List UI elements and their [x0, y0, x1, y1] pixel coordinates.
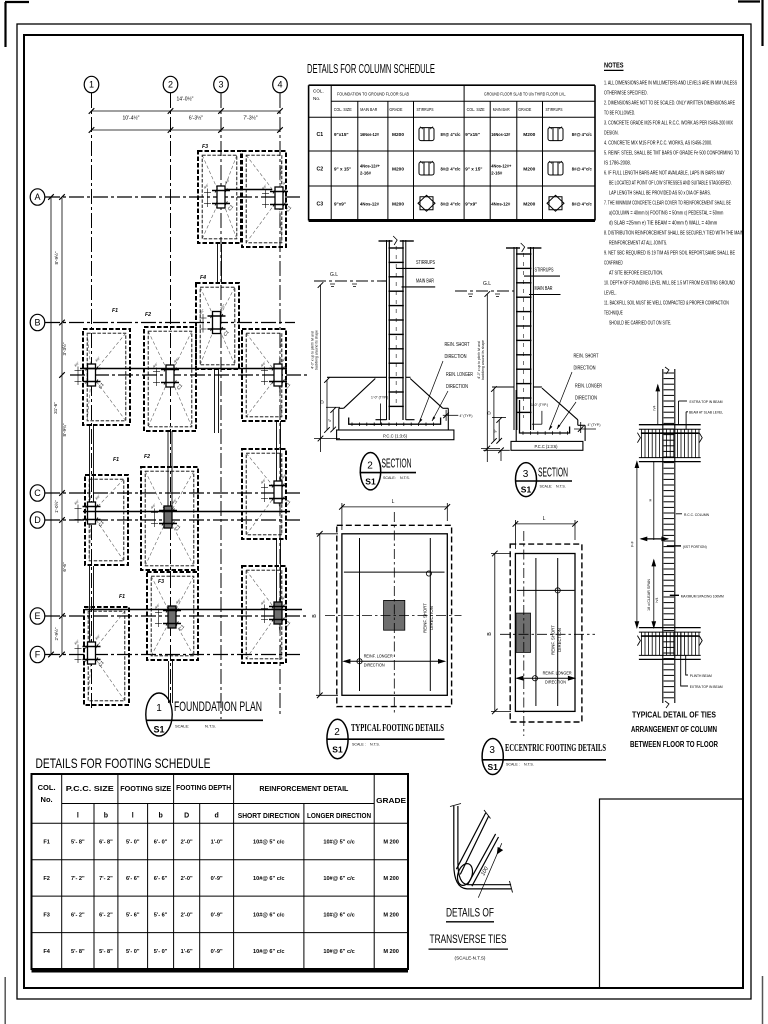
footing F4 at grid B/3	[196, 275, 239, 369]
typical footing reinf longer label	[364, 654, 393, 669]
svg-text:5'- 6": 5'- 6"	[126, 912, 140, 918]
svg-text:GRADE: GRADE	[376, 796, 406, 805]
svg-text:6. IF FULL LENGTH BARS ARE NOT: 6. IF FULL LENGTH BARS ARE NOT AVAILABLE…	[604, 171, 725, 177]
column schedule header text	[313, 89, 566, 113]
svg-text:3'-3½": 3'-3½"	[61, 342, 67, 355]
svg-text:d: d	[215, 813, 219, 820]
section 3 PCC base	[511, 441, 583, 450]
svg-text:8#@ 4"c/c: 8#@ 4"c/c	[572, 201, 592, 206]
svg-text:REIN. LONGER: REIN. LONGER	[575, 384, 602, 390]
svg-text:MAIN BAR: MAIN BAR	[493, 107, 510, 112]
svg-text:S1: S1	[332, 745, 343, 755]
section 2 column rebar bends	[376, 419, 415, 421]
svg-text:E: E	[34, 611, 40, 621]
svg-text:No.: No.	[313, 96, 320, 101]
svg-text:MAIN BAR: MAIN BAR	[360, 107, 377, 112]
section 2 tall left dimension	[314, 282, 340, 452]
svg-text:8'-9¾": 8'-9¾"	[62, 423, 67, 436]
svg-text:7'- 2": 7'- 2"	[71, 876, 85, 882]
svg-text:DIRECTION: DIRECTION	[364, 663, 385, 669]
ties label extra top in beam (upper)	[679, 399, 723, 425]
svg-text:F4: F4	[200, 275, 206, 281]
svg-text:h/4: h/4	[655, 598, 659, 603]
svg-text:DESIGN.: DESIGN.	[604, 131, 619, 137]
footing F2 at grid B/2	[144, 312, 196, 431]
svg-text:1'-0" (TYP.): 1'-0" (TYP.)	[531, 403, 549, 407]
section 3 rein longer direction label	[557, 384, 602, 430]
svg-text:SECTION: SECTION	[382, 457, 412, 471]
section 3 rein short direction label	[549, 354, 599, 431]
svg-text:3. CONCRETE GRADE M25 FOR ALL: 3. CONCRETE GRADE M25 FOR ALL R.C.C. WOR…	[604, 121, 733, 127]
svg-text:2'-0": 2'-0"	[181, 912, 193, 918]
svg-text:10. DEPTH OF FOUNDING LEVEL WI: 10. DEPTH OF FOUNDING LEVEL WILL BE 1.5 …	[604, 281, 735, 287]
section 2 stirrups label	[396, 260, 435, 268]
svg-text:b: b	[158, 813, 162, 820]
svg-text:ECCENTRIC FOOTING DETAILS: ECCENTRIC FOOTING DETAILS	[505, 743, 606, 754]
svg-text:M200: M200	[392, 201, 404, 207]
eccentric footing B dimension	[491, 551, 511, 715]
footing schedule data rows	[43, 840, 399, 955]
svg-text:1'-0" (TYP.): 1'-0" (TYP.)	[371, 396, 389, 400]
svg-text:5'- 8": 5'- 8"	[71, 949, 85, 955]
svg-text:0'-9": 0'-9"	[211, 912, 223, 918]
svg-text:S1: S1	[153, 725, 164, 735]
footing F3 at grid E/2	[147, 572, 198, 660]
typical footing plan outer dashed	[337, 525, 452, 706]
svg-text:TECHNIQUE: TECHNIQUE	[604, 311, 623, 317]
svg-text:P.C.C (1:3:6): P.C.C (1:3:6)	[383, 433, 407, 438]
section 3 pedestal width dim 1ft	[532, 411, 542, 424]
footing F3 at grid A/3	[198, 144, 241, 243]
foundation plan title bubble 1/S1	[146, 693, 263, 736]
svg-text:D: D	[184, 813, 189, 820]
svg-text:F1: F1	[113, 457, 119, 463]
eccentric footing centerlines	[500, 531, 595, 736]
typical footing column (grey)	[384, 600, 405, 630]
svg-text:4" (TYP.): 4" (TYP.)	[588, 423, 602, 427]
section 2 column with stirrups	[379, 236, 414, 420]
svg-text:N.T.S.: N.T.S.	[556, 485, 566, 489]
svg-text:DETAILS FOR COLUMN SCHEDULE: DETAILS FOR COLUMN SCHEDULE	[307, 61, 435, 76]
section 2 PCC base	[337, 430, 454, 440]
typical footing title bubble 2/S1	[327, 719, 445, 759]
notes text	[604, 81, 743, 327]
svg-text:TYPICAL FOOTING DETAILS: TYPICAL FOOTING DETAILS	[351, 723, 444, 734]
svg-text:M 200: M 200	[383, 876, 399, 882]
section 2 left dim D	[324, 377, 330, 433]
svg-text:STIRRUPS: STIRRUPS	[417, 107, 434, 112]
svg-text:F1: F1	[112, 308, 118, 314]
svg-text:2: 2	[168, 80, 173, 90]
svg-text:REINF. SHORT: REINF. SHORT	[551, 625, 556, 655]
svg-text:L: L	[543, 516, 546, 522]
section 3 right dim 4in TYP	[574, 422, 596, 433]
svg-text:b: b	[104, 813, 108, 820]
svg-text:N.T.S.: N.T.S.	[205, 724, 216, 729]
svg-text:1: 1	[89, 80, 94, 90]
footing schedule table	[32, 774, 409, 971]
svg-text:F2: F2	[144, 454, 150, 460]
footing at grid B/4	[242, 329, 292, 421]
svg-text:5. REINF. STEEL SHALL BE TMT B: 5. REINF. STEEL SHALL BE TMT BARS OF GRA…	[604, 151, 739, 157]
svg-text:0'-9": 0'-9"	[211, 949, 223, 955]
svg-text:0'-9": 0'-9"	[211, 876, 223, 882]
svg-text:SCALE:: SCALE:	[175, 724, 189, 729]
transverse tie end ticks	[450, 804, 513, 893]
svg-text:FOOTING DEPTH: FOOTING DEPTH	[176, 785, 231, 792]
svg-text:10'-4½": 10'-4½"	[123, 115, 140, 122]
typical footing L dimension	[339, 503, 450, 530]
svg-text:DIRECTION: DIRECTION	[557, 628, 562, 652]
svg-text:5'- 8": 5'- 8"	[71, 840, 85, 846]
svg-text:STIRRUPS: STIRRUPS	[546, 107, 563, 112]
svg-text:SCALE :: SCALE :	[352, 743, 366, 747]
svg-text:F2: F2	[145, 312, 151, 318]
corner crop mark bottom-left	[4, 977, 6, 1024]
svg-text:8#@ 4"c/c: 8#@ 4"c/c	[441, 167, 461, 172]
footing at grid C/4	[242, 449, 292, 539]
footing schedule header text	[38, 783, 406, 820]
svg-text:DIRECTION: DIRECTION	[545, 680, 566, 686]
svg-text:2: 2	[367, 461, 373, 472]
svg-text:REINF. SHORT: REINF. SHORT	[423, 603, 428, 633]
section 2 right dim 4in TYP	[443, 410, 459, 421]
svg-text:2'-0": 2'-0"	[181, 840, 193, 846]
svg-text:9. NET SBC REQUIRED IS 19 T/M: 9. NET SBC REQUIRED IS 19 T/M AS PER SOI…	[604, 251, 735, 257]
svg-text:No.: No.	[41, 795, 53, 804]
svg-text:9" x 15": 9" x 15"	[334, 167, 351, 172]
svg-text:8#@ 4"c/c: 8#@ 4"c/c	[572, 167, 592, 172]
svg-text:backfилg araund its shape: backfилg araund its shape	[315, 330, 319, 370]
svg-text:PLINTH BEAM: PLINTH BEAM	[690, 673, 712, 678]
svg-text:DIRECTION: DIRECTION	[445, 354, 467, 360]
ties upper dim arrow	[656, 385, 660, 425]
svg-text:8. DISTRIBUTION REINFORCEMENT: 8. DISTRIBUTION REINFORCEMENT SHALL BE S…	[604, 231, 743, 237]
svg-text:S1: S1	[487, 762, 498, 772]
svg-text:31'-6": 31'-6"	[53, 402, 58, 414]
svg-text:F2: F2	[43, 876, 50, 882]
svg-text:10#@ 6" c/c: 10#@ 6" c/c	[253, 949, 284, 955]
ties label rcc column	[676, 512, 709, 517]
svg-text:LEVEL.: LEVEL.	[604, 291, 617, 297]
column schedule rows	[316, 127, 592, 212]
svg-text:8'-9½": 8'-9½"	[53, 251, 59, 264]
svg-text:6'- 2": 6'- 2"	[71, 912, 85, 918]
svg-text:TRANSVERSE TIES: TRANSVERSE TIES	[430, 934, 507, 946]
footing F1 at grid B/1	[73, 308, 130, 425]
corner crop mark top-left	[5, 2, 29, 47]
svg-text:CONFIRMED: CONFIRMED	[604, 261, 623, 267]
svg-text:DETAILS FOR FOOTING SCHEDULE: DETAILS FOR FOOTING SCHEDULE	[36, 755, 211, 771]
svg-text:SCALE :: SCALE :	[506, 763, 520, 767]
svg-text:DIRECTION: DIRECTION	[575, 396, 597, 402]
corner crop mark bottom-right	[762, 976, 764, 1024]
svg-text:3: 3	[523, 469, 529, 480]
plan grid bubbles top	[84, 76, 287, 92]
svg-text:G.L: G.L	[330, 272, 338, 278]
svg-text:F4: F4	[43, 949, 50, 955]
svg-text:N.T.S.: N.T.S.	[524, 763, 534, 767]
svg-text:1'-6": 1'-6"	[181, 949, 193, 955]
svg-text:S1: S1	[365, 477, 376, 487]
svg-text:TO BE FOLLOWED.: TO BE FOLLOWED.	[604, 111, 635, 117]
section 3 bottom rebar	[520, 400, 570, 435]
svg-text:8#@ 4"c/c: 8#@ 4"c/c	[441, 132, 461, 137]
svg-text:F3: F3	[43, 912, 50, 918]
svg-text:B: B	[34, 318, 40, 328]
svg-text:(XST PORTION): (XST PORTION)	[683, 544, 708, 549]
footing at grid A/4	[242, 151, 293, 247]
svg-text:11. BACKFILL SOIL MUST BE WELL: 11. BACKFILL SOIL MUST BE WELL COMPACTED…	[604, 301, 729, 307]
svg-text:6'-6": 6'-6"	[62, 562, 67, 572]
svg-text:SHOULD BE CARRIED OUT ON SITE.: SHOULD BE CARRIED OUT ON SITE.	[609, 321, 671, 327]
svg-text:2-16#: 2-16#	[360, 171, 371, 176]
svg-text:16Nos-12#: 16Nos-12#	[491, 132, 510, 137]
svg-text:10#@ 5" c/c: 10#@ 5" c/c	[323, 840, 354, 846]
svg-text:6'-3½": 6'-3½"	[189, 115, 203, 122]
svg-text:2'-9½": 2'-9½"	[53, 627, 59, 640]
section 3 bottom-left small dim 4in	[483, 448, 510, 462]
svg-text:S1: S1	[521, 485, 532, 495]
svg-text:STIRRUPS: STIRRUPS	[535, 268, 554, 274]
eccentric footing plan solid	[515, 554, 575, 712]
svg-text:2. DIMENSIONS ARE NOT TO BE SC: 2. DIMENSIONS ARE NOT TO BE SCALED. ONLY…	[604, 101, 735, 107]
svg-text:MAXIMUM SPACING 100MM: MAXIMUM SPACING 100MM	[681, 593, 724, 598]
svg-text:M200: M200	[523, 167, 535, 173]
svg-text:5'- 6": 5'- 6"	[154, 912, 168, 918]
svg-text:F-F: F-F	[631, 540, 635, 546]
typical footing centerlines	[325, 512, 462, 715]
transverse tie 100 dimension	[478, 843, 502, 898]
section 2 title bubble 2/S1	[360, 453, 417, 490]
svg-text:REIN. LONGER: REIN. LONGER	[446, 372, 473, 378]
svg-text:4. CONCRETE MIX M15 FOR P.C.C.: 4. CONCRETE MIX M15 FOR P.C.C. WORKS, AS…	[604, 141, 712, 147]
svg-text:9"x15": 9"x15"	[465, 132, 480, 137]
ties label extra top in beam (lower)	[681, 633, 723, 689]
svg-text:10#@ 6" c/c: 10#@ 6" c/c	[253, 912, 284, 918]
svg-text:DIRECTION: DIRECTION	[429, 606, 434, 630]
svg-text:14'-0½": 14'-0½"	[177, 96, 194, 103]
svg-text:BETWEEN FLOOR TO FLOOR: BETWEEN FLOOR TO FLOOR	[630, 740, 718, 749]
svg-text:6'- 2": 6'- 2"	[99, 912, 113, 918]
svg-text:2: 2	[334, 727, 340, 738]
ties label xst portion	[667, 544, 707, 549]
svg-text:7'-3½": 7'-3½"	[243, 115, 257, 122]
ties lower beam band (plinth)	[637, 628, 702, 660]
svg-text:1'-0": 1'-0"	[211, 840, 223, 846]
foundation plan scale note	[175, 724, 216, 729]
svg-text:5'- 0": 5'- 0"	[126, 840, 140, 846]
eccentric footing plan outer dashed	[510, 544, 582, 722]
svg-text:d) SLAB =25mm e) TIE BEAM =: d) SLAB =25mm e) TIE BEAM = 40mm f) WALL…	[609, 221, 718, 227]
svg-text:7'- 2": 7'- 2"	[99, 876, 113, 882]
svg-text:4Nos-12#+: 4Nos-12#+	[491, 164, 511, 169]
svg-text:GROUND FLOOR SLAB TO U/s THIR: GROUND FLOOR SLAB TO U/s THIRD FLOOR LVL…	[484, 92, 566, 97]
svg-text:4Nos-12#: 4Nos-12#	[491, 201, 510, 206]
svg-text:P.C.C (1:3:6): P.C.C (1:3:6)	[535, 444, 558, 449]
svg-text:H: H	[649, 498, 653, 501]
svg-text:L: L	[392, 499, 395, 505]
svg-text:M 200: M 200	[383, 949, 399, 955]
svg-text:6'- 6": 6'- 6"	[154, 876, 168, 882]
section 3 title bubble 3/S1	[515, 463, 572, 497]
svg-text:l: l	[77, 813, 79, 820]
svg-text:10#@ 6" c/c: 10#@ 6" c/c	[323, 912, 354, 918]
svg-text:NOTES: NOTES	[604, 61, 624, 70]
svg-text:4Nos-12#+: 4Nos-12#+	[360, 164, 380, 169]
svg-text:5'- 0": 5'- 0"	[154, 949, 168, 955]
svg-text:16Nos-12#: 16Nos-12#	[360, 132, 379, 137]
svg-text:10#@ 6" c/c: 10#@ 6" c/c	[253, 876, 284, 882]
svg-text:1. ALL DIMENSIONS ARE IN MILLI: 1. ALL DIMENSIONS ARE IN MILLIMETERS AND…	[604, 81, 737, 87]
svg-text:9"x9": 9"x9"	[334, 201, 346, 206]
section 3 tall left dimension	[481, 291, 500, 462]
svg-text:EXTRA TOP IN BEAM: EXTRA TOP IN BEAM	[690, 399, 723, 404]
svg-text:BE LOCATED AT POINT OF LOW STR: BE LOCATED AT POINT OF LOW STRESSES AND …	[609, 181, 732, 187]
svg-text:N.T.S.: N.T.S.	[370, 743, 380, 747]
svg-text:3: 3	[218, 80, 223, 90]
plan left dimension chains	[48, 194, 65, 657]
svg-text:F: F	[35, 650, 41, 660]
svg-text:IS 1786-2008.: IS 1786-2008.	[604, 161, 631, 167]
svg-text:3: 3	[489, 745, 495, 756]
svg-text:GRADE: GRADE	[389, 107, 402, 112]
svg-text:DIRECTION: DIRECTION	[446, 384, 468, 390]
svg-text:R.C.C. COLUMN: R.C.C. COLUMN	[684, 512, 709, 517]
svg-text:BEAM AT SLAB LEVEL: BEAM AT SLAB LEVEL	[689, 410, 724, 415]
section 2 pedestal width dim 1ft	[370, 404, 381, 425]
section 3 small dim 9in	[492, 417, 506, 443]
ties upper beam band (slab level)	[637, 425, 702, 462]
corner crop mark top-right	[738, 0, 763, 46]
section 2 bottom rebar	[349, 418, 441, 427]
svg-text:REINF. LONGER: REINF. LONGER	[364, 654, 393, 660]
svg-text:FOOTING SIZE: FOOTING SIZE	[120, 786, 171, 793]
section 3 ground line G.L	[455, 281, 514, 297]
section 2 rein longer direction label	[432, 372, 473, 421]
svg-text:1: 1	[156, 703, 162, 714]
plan grid bubbles left	[30, 189, 45, 663]
svg-text:a)COLUMN = 40mm b) FOOTING =: a)COLUMN = 40mm b) FOOTING = 50mm c) PED…	[609, 211, 724, 217]
svg-text:REIN. SHORT: REIN. SHORT	[574, 354, 600, 360]
svg-text:h/4: h/4	[653, 406, 657, 411]
footing F1 at grid D/1	[73, 457, 128, 565]
svg-text:10#@ 5" c/c: 10#@ 5" c/c	[253, 840, 284, 846]
eccentric footing title bubble 3/S1	[482, 739, 607, 775]
transverse tie bent bar	[454, 806, 511, 889]
svg-text:8#@ 4"c/c: 8#@ 4"c/c	[572, 132, 592, 137]
svg-text:D: D	[34, 515, 41, 525]
svg-text:COL.: COL.	[313, 89, 324, 94]
footing F2 at grid D/2	[141, 454, 198, 570]
svg-text:6'- 8": 6'- 8"	[99, 840, 113, 846]
plan top dimension lines	[89, 108, 283, 133]
svg-text:F3: F3	[202, 144, 208, 150]
ties label plinth beam	[686, 655, 712, 678]
svg-text:REINFORCEMENT DETAIL: REINFORCEMENT DETAIL	[259, 784, 348, 793]
svg-text:REIN. SHORT: REIN. SHORT	[445, 342, 471, 348]
eccentric footing rebar lines	[517, 558, 575, 706]
svg-text:5'- 0": 5'- 0"	[126, 949, 140, 955]
typical footing plan solid	[342, 534, 447, 696]
svg-text:M 200: M 200	[383, 840, 399, 846]
svg-text:STIRRUPS: STIRRUPS	[416, 260, 435, 266]
section 3 stirrups label	[524, 268, 560, 277]
svg-text:18 x/CLEAR SPAN: 18 x/CLEAR SPAN	[647, 579, 651, 611]
svg-text:4Nos-12#: 4Nos-12#	[360, 201, 379, 206]
svg-text:9" x 15": 9" x 15"	[465, 167, 482, 172]
svg-text:G.L: G.L	[483, 281, 491, 287]
svg-text:MAIN BAR: MAIN BAR	[416, 279, 434, 285]
svg-text:SCALE:: SCALE:	[540, 485, 553, 489]
plan grid horizontal centerlines	[45, 197, 307, 655]
svg-text:LAP LENGTH SHALL BE PROVIDED A: LAP LENGTH SHALL BE PROVIDED AS 50 x DIA…	[609, 191, 711, 197]
svg-text:COL. SIZE: COL. SIZE	[467, 107, 485, 112]
svg-text:REINFORCEMENT AT ALL JOINTS.: REINFORCEMENT AT ALL JOINTS.	[609, 241, 667, 247]
svg-text:C: C	[34, 488, 41, 498]
svg-text:4: 4	[277, 80, 282, 90]
ties label beam at slab level	[686, 410, 724, 430]
svg-text:FOUNDDATION PLAN: FOUNDDATION PLAN	[174, 698, 262, 714]
ties left dims	[635, 462, 668, 628]
svg-text:10#@ 6" c/c: 10#@ 6" c/c	[323, 949, 354, 955]
svg-text:M 200: M 200	[383, 912, 399, 918]
svg-text:N.T.S.: N.T.S.	[400, 476, 410, 480]
ties column ladder	[663, 367, 675, 708]
svg-text:SCALE:: SCALE:	[383, 476, 396, 480]
section 2 ground line G.L	[314, 272, 387, 287]
footing F1 at grid F/1	[73, 594, 129, 705]
svg-text:REINF. LONGER: REINF. LONGER	[543, 671, 572, 677]
ties title	[630, 711, 718, 749]
ties label maximum spacing	[670, 593, 724, 598]
svg-text:FOUNDATION TO GROUND FLOOR SLA: FOUNDATION TO GROUND FLOOR SLAB	[337, 92, 409, 97]
section 2 footing outline	[327, 377, 448, 430]
svg-text:AT SITE BEFORE EXECUTION.: AT SITE BEFORE EXECUTION.	[609, 271, 663, 277]
svg-text:SECTION: SECTION	[538, 466, 568, 480]
svg-text:2'-0": 2'-0"	[181, 876, 193, 882]
svg-text:(SCALE-N.T.S): (SCALE-N.T.S)	[455, 956, 486, 961]
svg-text:DETAILS OF: DETAILS OF	[446, 908, 494, 920]
svg-text:2-16#: 2-16#	[491, 171, 502, 176]
svg-text:MAIN BAR: MAIN BAR	[535, 286, 553, 292]
plan tie beams	[80, 190, 302, 704]
plan top dimension texts	[123, 96, 258, 122]
svg-text:4" (TYP.): 4" (TYP.)	[460, 414, 474, 418]
section 3 left dim D	[491, 386, 497, 444]
section 3 footing outline eccentric	[492, 387, 585, 441]
svg-text:COL.: COL.	[38, 783, 56, 792]
svg-text:M200: M200	[392, 132, 404, 138]
svg-text:DIRECTION: DIRECTION	[574, 366, 596, 372]
svg-text:ARRANGEMENT OF COLUMN: ARRANGEMENT OF COLUMN	[631, 725, 717, 734]
svg-text:backfилg araund its shape: backfилg araund its shape	[481, 340, 485, 380]
svg-text:C3: C3	[316, 201, 323, 207]
column schedule table	[309, 85, 595, 220]
section 3 column with stirrups	[506, 243, 541, 430]
svg-text:TYPICAL DETAIL OF TIES: TYPICAL DETAIL OF TIES	[632, 711, 717, 720]
section 2 left small dim 4in	[326, 407, 340, 432]
plan grid vertical centerlines	[92, 93, 281, 719]
svg-text:9"x9": 9"x9"	[465, 201, 477, 206]
svg-text:1'-0½": 1'-0½"	[53, 500, 59, 513]
svg-text:6'- 0": 6'- 0"	[154, 840, 168, 846]
svg-text:COL. SIZE: COL. SIZE	[334, 107, 352, 112]
typical footing B dimension	[316, 531, 338, 698]
svg-text:SHORT DIRECTION: SHORT DIRECTION	[238, 813, 300, 820]
svg-text:F3: F3	[158, 579, 164, 585]
svg-text:C1: C1	[316, 132, 323, 138]
